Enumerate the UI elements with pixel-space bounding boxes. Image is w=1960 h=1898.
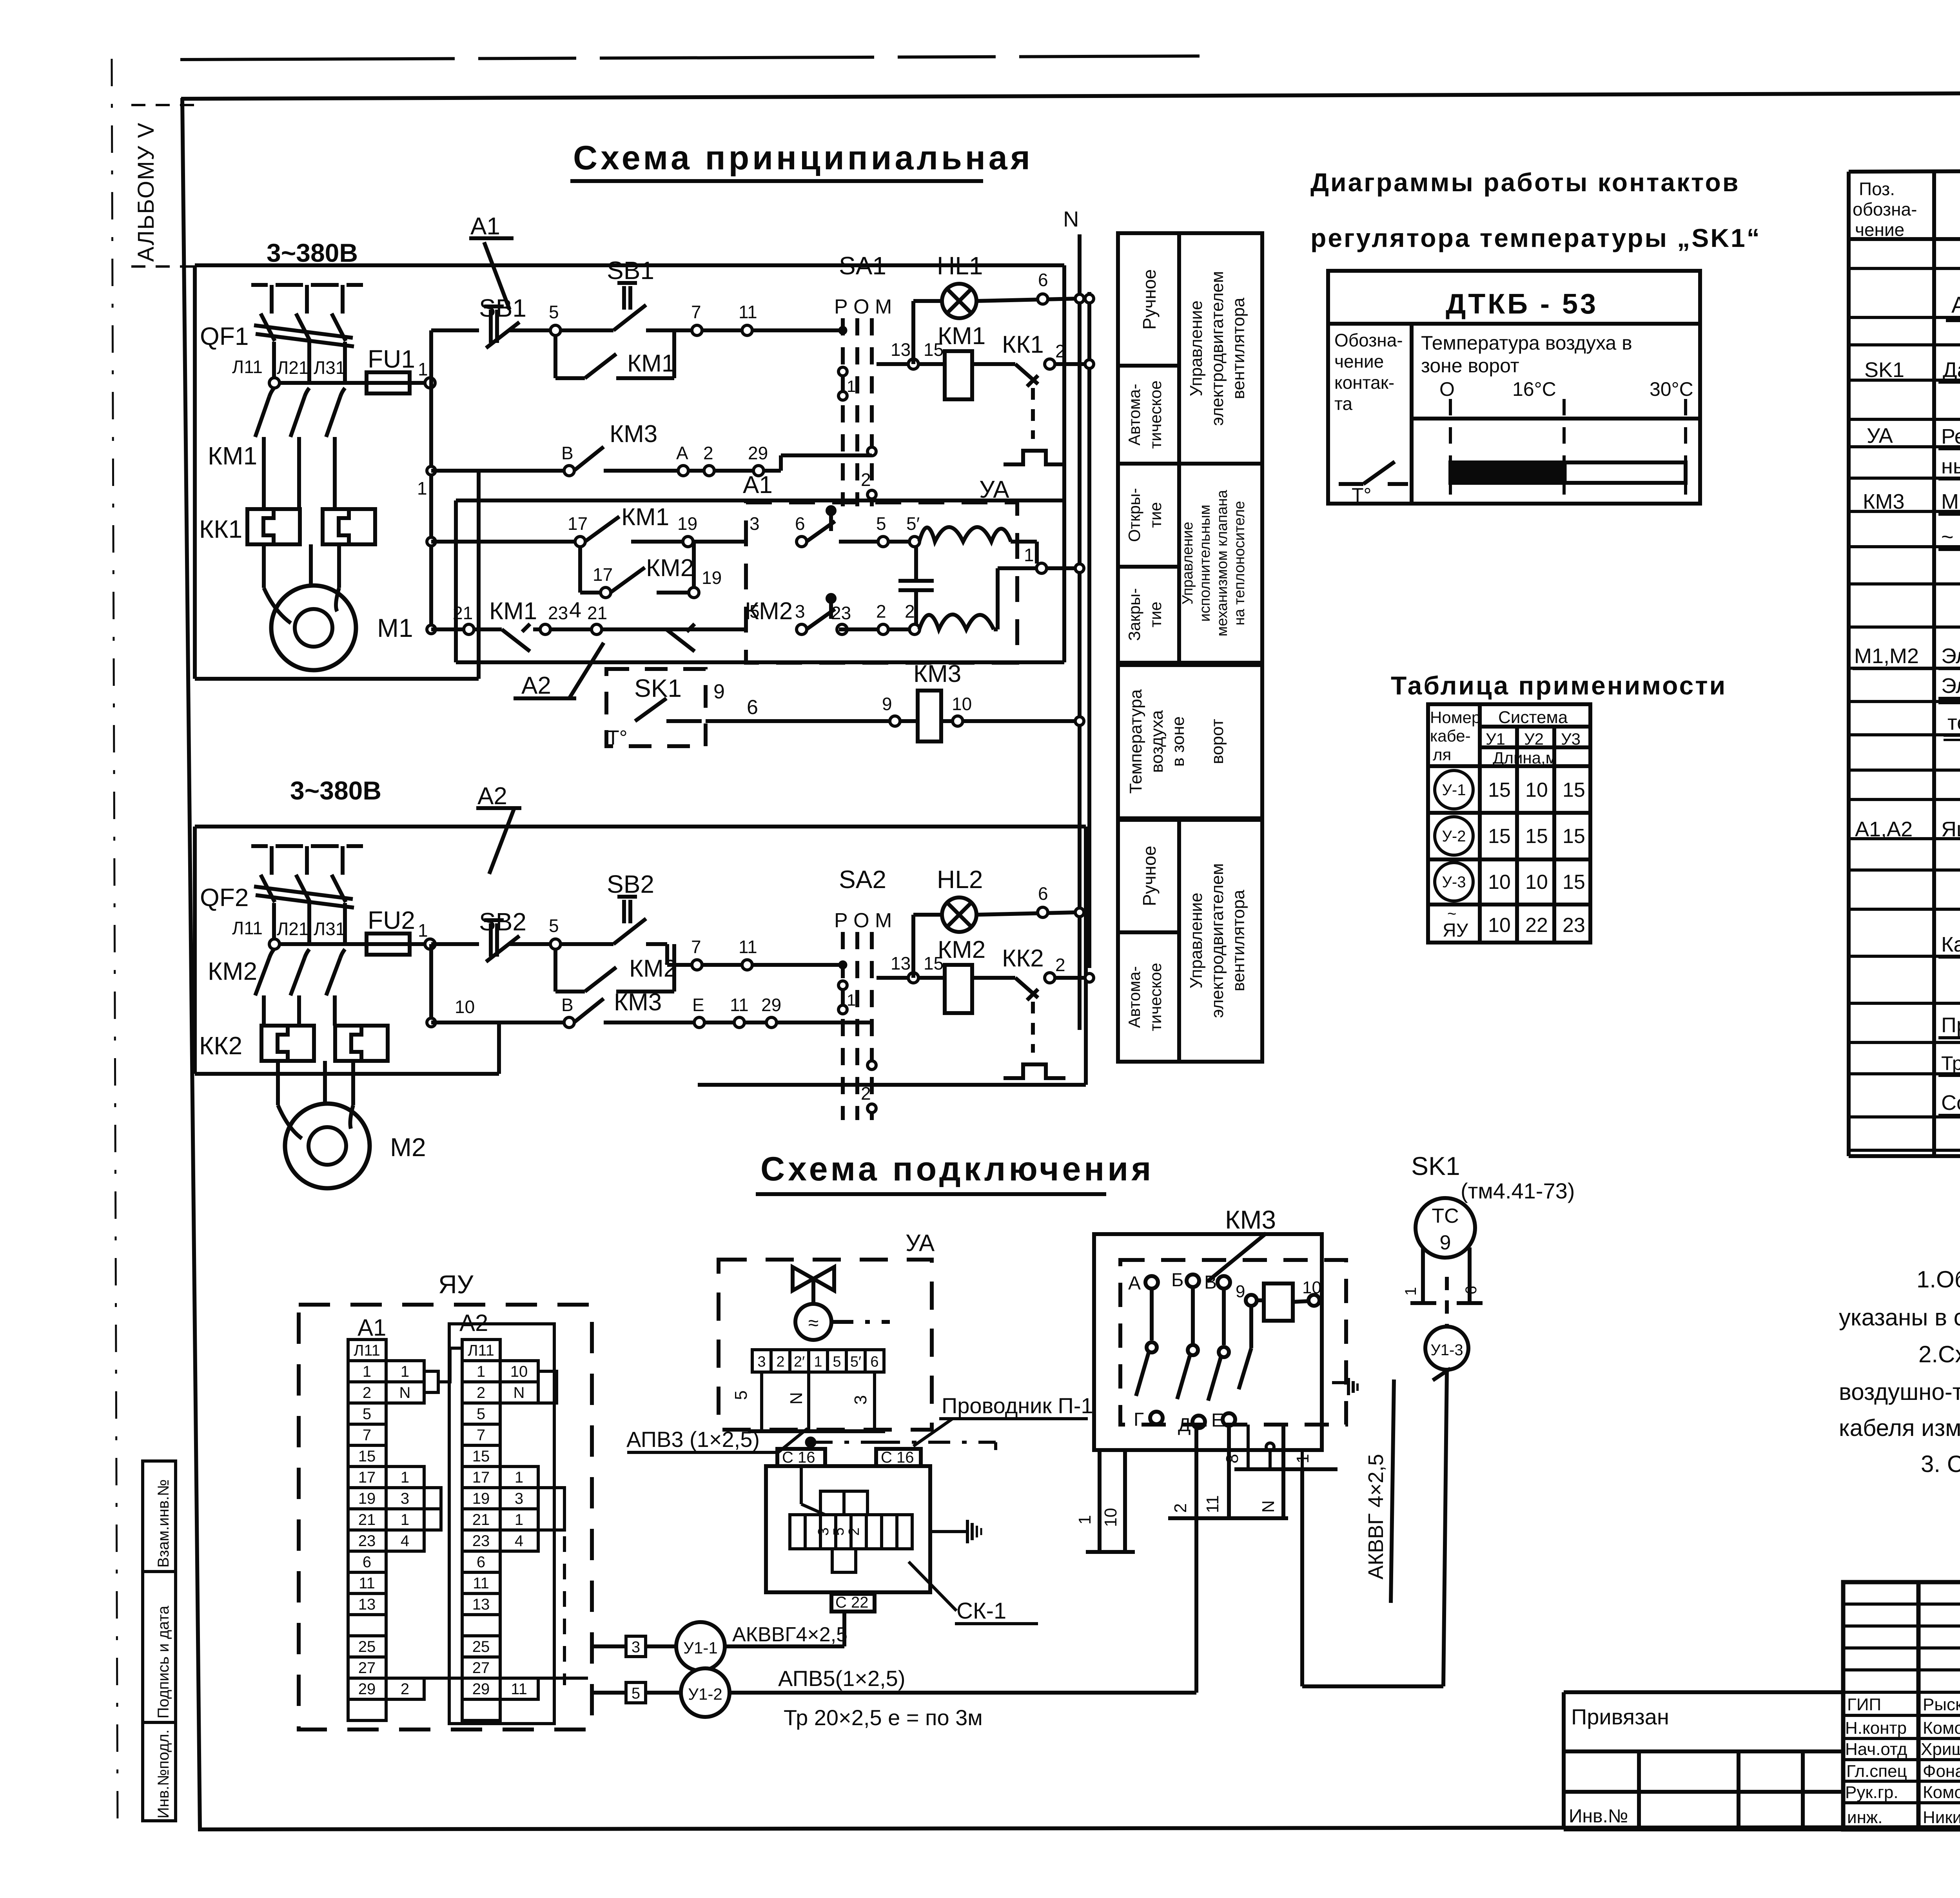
svg-text:КМ3: КМ3: [614, 989, 662, 1016]
valve actuator UA dashed box: [746, 476, 1084, 663]
svg-text:Номер: Номер: [1430, 708, 1481, 727]
svg-text:Схема принципиальная: Схема принципиальная: [573, 139, 1033, 177]
junction box SK-1: [766, 1449, 1038, 1624]
svg-text:30°С: 30°С: [1650, 378, 1693, 400]
motor M2: [276, 1061, 280, 1105]
svg-text:Рыскин: Рыскин: [1923, 1695, 1960, 1714]
svg-text:ТС: ТС: [1432, 1205, 1459, 1227]
actuator motor circle: [795, 1304, 831, 1340]
svg-text:7: 7: [691, 937, 701, 957]
svg-text:5: 5: [750, 601, 760, 622]
svg-text:воздушно-тепловых завес У2,У3: воздушно-тепловых завес У2,У3 схемы анал…: [1839, 1379, 1960, 1405]
svg-text:Инв.№подл.: Инв.№подл.: [155, 1729, 172, 1818]
contactor KM1 holding contact: [554, 335, 557, 378]
stamp box podpis i data: [143, 1572, 176, 1722]
svg-text:2: 2: [363, 1384, 371, 1401]
svg-text:N: N: [514, 1384, 525, 1401]
contactor KM2 holding contact: [554, 949, 557, 992]
svg-text:Аппаратура по месту: Аппаратура по месту: [1951, 292, 1960, 318]
svg-text:5: 5: [477, 1405, 485, 1423]
svg-text:15: 15: [1488, 825, 1511, 848]
svg-text:1: 1: [418, 920, 428, 941]
bus vertical c2: [429, 944, 433, 1022]
svg-text:С 16: С 16: [782, 1449, 815, 1466]
svg-text:КМ2: КМ2: [646, 555, 694, 582]
svg-text:2: 2: [861, 1083, 871, 1104]
svg-text:А: А: [1128, 1273, 1141, 1294]
cable circle U1-3: [1425, 1327, 1468, 1370]
svg-text:2: 2: [1171, 1503, 1190, 1513]
svg-text:ЯУ: ЯУ: [438, 1270, 474, 1299]
svg-text:Схема подключения: Схема подключения: [760, 1150, 1154, 1188]
svg-text:1: 1: [401, 1511, 409, 1528]
svg-text:на теплоносителе: на теплоносителе: [1231, 501, 1248, 625]
svg-text:М2: М2: [390, 1133, 426, 1162]
svg-text:В: В: [561, 995, 573, 1015]
svg-text:А1: А1: [470, 213, 500, 240]
svg-text:тие: тие: [1146, 502, 1165, 528]
svg-text:10: 10: [952, 694, 972, 714]
svg-text:Поз.: Поз.: [1859, 179, 1895, 199]
svg-text:тие: тие: [1146, 602, 1165, 627]
frame left border: [182, 98, 200, 1829]
svg-text:2: 2: [861, 470, 871, 490]
svg-text:КМ1: КМ1: [489, 598, 537, 625]
svg-text:СК-1: СК-1: [956, 1598, 1006, 1624]
cable circle U1-1: [592, 1612, 1196, 1730]
svg-text:У1: У1: [1486, 730, 1505, 748]
svg-text:КК2: КК2: [1002, 945, 1044, 972]
svg-text:В: В: [1204, 1272, 1217, 1293]
svg-text:ным механизмом М90-063 254931н: ным механизмом М90-063 254931нж~ 220В: [1941, 455, 1960, 478]
svg-text:29: 29: [472, 1680, 490, 1698]
wires 2 11 N: [1194, 1425, 1198, 1693]
svg-text:в зоне: в зоне: [1169, 716, 1188, 767]
control box YaU dashed outline: [299, 1270, 592, 1729]
top dashed paper edge: [180, 56, 1200, 60]
rotated mode/function legend table: [1118, 233, 1262, 1062]
svg-text:С 16: С 16: [881, 1449, 914, 1466]
svg-text:электродвигателем: электродвигателем: [1208, 271, 1227, 426]
svg-text:10: 10: [1525, 871, 1548, 894]
svg-text:3: 3: [815, 1527, 832, 1535]
svg-text:~: ~: [1447, 905, 1456, 923]
svg-text:15: 15: [1563, 779, 1585, 801]
svg-text:Система: Система: [1498, 708, 1568, 727]
AKVVG cable run: [1302, 1684, 1443, 1688]
svg-text:Комова: Комова: [1923, 1719, 1960, 1738]
svg-text:3: 3: [401, 1490, 409, 1507]
svg-text:1: 1: [1293, 1454, 1312, 1463]
svg-text:контак-: контак-: [1334, 372, 1394, 393]
svg-text:15: 15: [472, 1448, 490, 1465]
svg-text:Диаграммы работы контактов: Диаграммы работы контактов: [1310, 168, 1740, 197]
svg-text:10: 10: [510, 1363, 528, 1380]
svg-text:25: 25: [472, 1638, 490, 1655]
svg-text:5′: 5′: [850, 1354, 861, 1370]
svg-text:19: 19: [702, 567, 722, 588]
svg-text:2′: 2′: [794, 1354, 805, 1370]
svg-text:КК1: КК1: [199, 515, 242, 543]
svg-text:О: О: [1439, 378, 1455, 400]
fuse FU1: [367, 372, 410, 393]
svg-text:АКВВГ 4×2,5: АКВВГ 4×2,5: [1364, 1454, 1388, 1579]
svg-text:10: 10: [1488, 914, 1511, 937]
svg-text:29: 29: [358, 1680, 376, 1698]
frame bottom border: [198, 1826, 1960, 1829]
svg-text:11: 11: [473, 1575, 489, 1592]
svg-text:11: 11: [730, 995, 749, 1015]
svg-text:11: 11: [1203, 1495, 1222, 1513]
svg-text:9: 9: [1440, 1231, 1451, 1254]
svg-text:10: 10: [1488, 871, 1511, 894]
svg-text:19: 19: [677, 513, 697, 534]
svg-text:А1: А1: [743, 471, 773, 499]
svg-text:кабе-: кабе-: [1430, 727, 1471, 745]
svg-text:23: 23: [548, 603, 568, 623]
svg-text:Рук.гр.: Рук.гр.: [1845, 1783, 1898, 1802]
svg-text:15: 15: [1563, 825, 1585, 848]
svg-text:Труба легкая ГОСТ3262-75 м-р-: Труба легкая ГОСТ3262-75 м-р-20×2,5- 600…: [1941, 1052, 1960, 1074]
svg-text:2: 2: [401, 1680, 409, 1698]
svg-text:2: 2: [703, 443, 713, 463]
svg-text:КМ1: КМ1: [627, 350, 675, 377]
application table: [1428, 704, 1590, 943]
svg-text:А1,А2: А1,А2: [1855, 818, 1913, 841]
svg-text:М1: М1: [377, 613, 413, 642]
svg-text:КМ1: КМ1: [938, 323, 985, 350]
svg-text:УА: УА: [906, 1230, 935, 1256]
svg-text:3: 3: [851, 1395, 870, 1405]
svg-text:1: 1: [847, 377, 856, 395]
svg-text:Никитина: Никитина: [1923, 1808, 1960, 1827]
svg-text:С 22: С 22: [835, 1594, 869, 1611]
svg-text:Датчик температуры биметалличе: Датчик температуры биметаллический: [1943, 358, 1960, 382]
svg-text:11: 11: [359, 1575, 375, 1592]
svg-text:SK1: SK1: [1864, 358, 1904, 382]
svg-text:Т°: Т°: [1352, 484, 1372, 506]
svg-text:Д: Д: [1178, 1415, 1191, 1436]
svg-text:обозна-: обозна-: [1853, 199, 1917, 219]
svg-text:У1-2: У1-2: [688, 1685, 722, 1703]
svg-text:Ящик управления: Ящик управления: [1941, 818, 1960, 841]
svg-text:9: 9: [713, 680, 725, 703]
svg-text:5: 5: [549, 915, 559, 936]
svg-text:та: та: [1334, 393, 1353, 414]
svg-text:Б: Б: [1171, 1270, 1184, 1291]
svg-text:А: А: [676, 443, 688, 463]
svg-text:5: 5: [831, 1527, 847, 1535]
svg-text:Соединительная коробкаТУ36.175: Соединительная коробкаТУ36.1753-75: [1941, 1091, 1960, 1115]
svg-text:У1-3: У1-3: [1430, 1341, 1463, 1359]
svg-text:Л21: Л21: [277, 919, 309, 939]
svg-text:кабеля изменяются согласно та: кабеля изменяются согласно таблице приме…: [1839, 1415, 1960, 1441]
svg-text:Инв.№: Инв.№: [1569, 1806, 1628, 1827]
svg-text:8: 8: [1223, 1454, 1242, 1463]
svg-text:SK1: SK1: [1411, 1151, 1460, 1180]
svg-text:4: 4: [515, 1532, 523, 1550]
svg-text:27: 27: [358, 1659, 376, 1677]
svg-text:13: 13: [891, 953, 911, 973]
svg-text:1: 1: [1024, 545, 1034, 565]
capacitor in UA: [914, 547, 918, 579]
svg-text:Электродвигатель ~380В: Электродвигатель ~380В: [1941, 644, 1960, 668]
svg-text:23: 23: [358, 1532, 376, 1550]
svg-text:SA2: SA2: [839, 865, 886, 894]
diagram bar: [1450, 462, 1686, 483]
svg-text:10: 10: [455, 997, 475, 1017]
thermal contact symbol: [1339, 482, 1363, 486]
svg-text:Л11: Л11: [468, 1342, 494, 1359]
svg-text:ЯУ: ЯУ: [1443, 920, 1468, 941]
thermal trip symbol KK2: [1031, 1002, 1035, 1053]
svg-text:3. Спецификация составлена дл: 3. Спецификация составлена для всех заве…: [1921, 1451, 1960, 1477]
svg-text:7: 7: [363, 1427, 371, 1444]
svg-text:Л31: Л31: [314, 919, 345, 939]
svg-text:3: 3: [515, 1490, 523, 1507]
svg-text:29: 29: [761, 995, 781, 1015]
svg-text:23: 23: [831, 603, 851, 623]
svg-text:19: 19: [472, 1490, 490, 1507]
thermostat SK1 dashed box: [606, 660, 1084, 749]
jumper wires between strips: [424, 1371, 438, 1392]
svg-text:КМ1: КМ1: [208, 442, 257, 470]
frame top border: [181, 91, 1960, 99]
svg-text:1: 1: [401, 1363, 409, 1380]
svg-text:Провод АПВ сеч. 2,5мм² гост 63: Провод АПВ сеч. 2,5мм² гост 6323 -79: [1941, 1013, 1960, 1037]
svg-text:М1,М2: М1,М2: [1854, 644, 1919, 668]
svg-text:3: 3: [795, 601, 805, 622]
svg-text:Тр 20×2,5 е = по 3м: Тр 20×2,5 е = по 3м: [784, 1705, 983, 1730]
control row c2: [431, 942, 479, 946]
svg-text:2: 2: [846, 1527, 862, 1535]
svg-text:инж.: инж.: [1847, 1808, 1883, 1827]
inner box A1 interlock: [456, 499, 1064, 502]
svg-text:воздуха: воздуха: [1147, 710, 1167, 773]
svg-text:23: 23: [1563, 914, 1585, 937]
enclosure A2 outline: [195, 825, 1086, 828]
thermal trip symbol KK1: [1031, 388, 1035, 439]
svg-text:10: 10: [1525, 779, 1548, 801]
svg-text:У-3: У-3: [1442, 874, 1466, 891]
svg-text:QF1: QF1: [200, 322, 249, 350]
svg-text:N: N: [787, 1392, 806, 1405]
svg-text:Управление: Управление: [1180, 522, 1196, 604]
svg-text:исполнительным: исполнительным: [1197, 505, 1213, 622]
svg-text:10: 10: [1101, 1508, 1120, 1527]
svg-text:Таблица применимости: Таблица применимости: [1391, 671, 1727, 700]
svg-text:У3: У3: [1561, 730, 1581, 748]
NC interlock row 21 23: [427, 625, 436, 634]
svg-text:21: 21: [587, 603, 607, 623]
svg-text:ля: ля: [1433, 745, 1451, 764]
svg-text:15: 15: [1525, 825, 1548, 848]
svg-text:25: 25: [358, 1638, 376, 1655]
svg-text:17: 17: [593, 564, 613, 585]
svg-text:АПВ3 (1×2,5): АПВ3 (1×2,5): [626, 1427, 760, 1452]
fuse FU2 row: [274, 942, 367, 946]
svg-text:19: 19: [358, 1490, 376, 1507]
svg-text:7: 7: [477, 1427, 485, 1444]
svg-text:зоне ворот: зоне ворот: [1421, 355, 1519, 377]
svg-text:5: 5: [833, 1354, 841, 1370]
UA actuator dashed box (connection): [719, 1230, 935, 1431]
svg-text:15: 15: [1488, 779, 1511, 801]
svg-text:КМ3: КМ3: [1225, 1205, 1276, 1234]
svg-text:29: 29: [748, 443, 768, 463]
svg-text:Л11: Л11: [354, 1342, 380, 1359]
svg-text:1: 1: [363, 1363, 371, 1380]
terminal strip A1: [348, 1340, 386, 1361]
svg-text:Закры-: Закры-: [1125, 588, 1143, 641]
ground of SK-1: [930, 1530, 967, 1533]
terminal bar 8/1 below: [1247, 1425, 1250, 1469]
svg-text:ГИП: ГИП: [1847, 1695, 1881, 1714]
control row c1: [431, 328, 479, 332]
svg-text:указаны в соответствии с функ: указаны в соответствии с функциональной …: [1839, 1304, 1960, 1331]
svg-text:FU2: FU2: [368, 906, 415, 934]
svg-text:6: 6: [870, 1354, 878, 1370]
svg-text:3~380В: 3~380В: [267, 238, 358, 267]
svg-text:1: 1: [417, 478, 427, 499]
svg-text:Фонарев: Фонарев: [1923, 1762, 1960, 1781]
wires 1 10 left: [1098, 1450, 1102, 1552]
svg-text:N: N: [1259, 1500, 1278, 1513]
svg-text:2: 2: [1055, 955, 1065, 975]
svg-text:1: 1: [1402, 1287, 1419, 1296]
svg-text:КМ2: КМ2: [629, 955, 677, 982]
node L11 row wire: [274, 381, 367, 385]
svg-text:6: 6: [1038, 270, 1048, 290]
valve symbol: [793, 1267, 813, 1291]
svg-text:КК1: КК1: [1002, 331, 1044, 358]
motor leads to M1: [262, 544, 266, 588]
svg-text:1: 1: [847, 991, 856, 1009]
svg-text:КМ3: КМ3: [610, 421, 657, 448]
svg-text:16°С: 16°С: [1512, 378, 1556, 400]
svg-text:~ 220В ОСТ 16-0536.: ~ 220В ОСТ 16-0536.001- 72: [1941, 525, 1960, 549]
svg-text:5: 5: [632, 1685, 640, 1702]
svg-text:1: 1: [418, 359, 428, 379]
svg-text:N: N: [1063, 207, 1079, 231]
KM2 aux contact 17-19: [578, 547, 582, 593]
svg-text:22: 22: [1525, 914, 1548, 937]
svg-text:6: 6: [795, 513, 805, 534]
svg-text:Т°: Т°: [607, 727, 628, 749]
specification table: [1849, 169, 1960, 1156]
svg-text:Комова: Комова: [1923, 1783, 1960, 1802]
sheet left dash-dot paper edge: [112, 59, 118, 1830]
svg-text:5: 5: [876, 513, 886, 534]
svg-text:А2: А2: [521, 672, 551, 699]
svg-text:регулятора температуры „SK1“: регулятора температуры „SK1“: [1310, 223, 1761, 252]
svg-text:13: 13: [472, 1596, 490, 1613]
svg-text:13: 13: [891, 339, 911, 360]
svg-text:Управление: Управление: [1187, 301, 1206, 397]
svg-text:Автома-: Автома-: [1125, 966, 1143, 1028]
svg-text:А2: А2: [477, 783, 507, 810]
svg-text:1: 1: [814, 1354, 822, 1370]
svg-text:9: 9: [1236, 1282, 1245, 1301]
svg-text:АПВ5(1×2,5): АПВ5(1×2,5): [778, 1666, 905, 1691]
svg-text:5′: 5′: [906, 513, 920, 534]
svg-text:Нач.отд: Нач.отд: [1845, 1740, 1907, 1759]
svg-text:В: В: [561, 443, 573, 463]
svg-text:КМ2: КМ2: [208, 957, 257, 985]
svg-text:HL1: HL1: [937, 252, 983, 280]
svg-text:4: 4: [401, 1532, 409, 1550]
ground inside KM3: [1332, 1381, 1346, 1384]
svg-text:3: 3: [632, 1639, 640, 1656]
stamp box inv.n podl: [143, 1722, 176, 1821]
svg-text:1: 1: [477, 1363, 485, 1380]
svg-text:SA1: SA1: [839, 252, 886, 280]
svg-text:6: 6: [477, 1554, 485, 1571]
svg-text:чение: чение: [1334, 351, 1384, 372]
svg-text:АЛЬБОМУ V: АЛЬБОМУ V: [133, 122, 159, 262]
svg-text:1.Обозначения (маркировка)сред: 1.Обозначения (маркировка)средств автома…: [1916, 1266, 1960, 1293]
svg-text:Ручное: Ручное: [1139, 269, 1160, 330]
svg-text:Элементы управления электродв: Элементы управления электродвига-: [1941, 674, 1960, 698]
svg-text:Р О М: Р О М: [834, 295, 892, 318]
svg-text:телями М1,М2: телями М1,М2: [1947, 711, 1960, 734]
svg-text:3: 3: [757, 1354, 766, 1370]
svg-text:Гл.спец: Гл.спец: [1846, 1762, 1907, 1781]
svg-text:Н.контр: Н.контр: [1845, 1719, 1907, 1738]
coil KM3: [706, 719, 890, 723]
svg-text:Управление: Управление: [1187, 893, 1206, 989]
svg-text:Кабель АКВВГ 4×2,5 гост 1508: Кабель АКВВГ 4×2,5 гост 1508 -78: [1941, 933, 1960, 956]
svg-text:2.Схемы составлены для воздушн: 2.Схемы составлены для воздушно-тепловой…: [1918, 1341, 1960, 1367]
svg-text:21: 21: [472, 1511, 490, 1528]
motor M1: [271, 586, 356, 670]
svg-text:13: 13: [358, 1596, 376, 1613]
row B KM3 A 2 29 (to UA supply): [427, 466, 436, 475]
svg-text:Л31: Л31: [314, 357, 345, 378]
coil row c2: 13 15 KM2 KK2 2: [877, 976, 909, 980]
svg-text:Л11: Л11: [232, 918, 263, 938]
svg-text:Проводник П-1: Проводник П-1: [942, 1393, 1093, 1418]
svg-text:6: 6: [747, 696, 758, 719]
svg-text:Магнитный пускатель ПМЕ - 12: Магнитный пускатель ПМЕ - 121: [1941, 490, 1960, 513]
svg-text:6: 6: [1038, 883, 1048, 904]
svg-text:SB1: SB1: [607, 256, 654, 285]
svg-text:Взам.инв.№: Взам.инв.№: [155, 1479, 172, 1568]
svg-text:9: 9: [882, 694, 892, 714]
svg-text:чение: чение: [1855, 219, 1904, 240]
svg-text:АКВВГ4×2,5: АКВВГ4×2,5: [732, 1623, 848, 1646]
svg-text:17: 17: [568, 513, 588, 534]
svg-text:Длина,м: Длина,м: [1493, 749, 1557, 767]
svg-text:У-2: У-2: [1442, 828, 1466, 845]
stamp box vzam.inv: [143, 1461, 176, 1572]
svg-text:У1-1: У1-1: [683, 1639, 717, 1657]
terminal strip A2: [449, 1324, 554, 1724]
svg-text:5: 5: [549, 302, 559, 322]
svg-text:Привязан: Привязан: [1571, 1704, 1669, 1729]
svg-text:QF2: QF2: [200, 883, 249, 912]
svg-text:КМ3: КМ3: [1863, 490, 1904, 513]
svg-text:Автома-: Автома-: [1125, 384, 1143, 446]
svg-text:КК2: КК2: [199, 1031, 242, 1060]
svg-text:11: 11: [739, 302, 757, 322]
svg-text:Хрищанович: Хрищанович: [1921, 1740, 1960, 1759]
svg-text:У2: У2: [1524, 730, 1544, 748]
svg-text:А1: А1: [358, 1314, 386, 1341]
svg-text:УА: УА: [1867, 424, 1893, 448]
svg-text:Л11: Л11: [232, 357, 263, 377]
main control bus vertical c1: [429, 330, 433, 631]
